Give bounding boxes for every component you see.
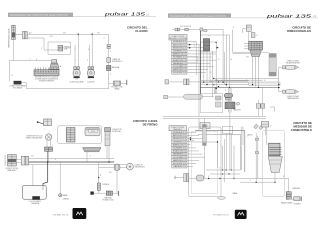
rear brake pedal switch bbox=[83, 148, 102, 152]
BR wire pair right of bundle bbox=[241, 127, 243, 146]
svg-text:CLAXON: CLAXON bbox=[87, 81, 95, 84]
wire to battery bbox=[93, 190, 119, 193]
stub wires into switch block bbox=[244, 44, 249, 49]
wire ground to battery bottom bus bbox=[21, 83, 108, 89]
svg-text:G/N: G/N bbox=[97, 33, 100, 35]
grid connector J2 bbox=[8, 155, 17, 167]
wire bundle down bbox=[229, 87, 231, 170]
svg-text:V/N: V/N bbox=[31, 155, 34, 157]
bus light 2 bbox=[29, 164, 127, 166]
svg-text:N: N bbox=[110, 51, 111, 53]
BR top connector box bbox=[261, 122, 269, 128]
BR key barrel bbox=[196, 175, 204, 181]
svg-text:GRIS/N 2.5: GRIS/N 2.5 bbox=[173, 141, 186, 143]
svg-text:B: B bbox=[233, 27, 234, 29]
ignition switch circle bbox=[126, 163, 133, 170]
wire color labels BR bbox=[192, 120, 285, 183]
svg-text:DIAGRAMA DE CIRCUITOS ELECTRIC: DIAGRAMA DE CIRCUITOS ELECTRICOS bbox=[170, 15, 226, 18]
svg-text:pulsar 135: pulsar 135 bbox=[265, 13, 312, 18]
wire gauge down bbox=[274, 173, 276, 183]
box inner bits bbox=[216, 96, 222, 100]
wire bus to battery drop bbox=[98, 162, 100, 183]
main harness connector table rows bbox=[172, 40, 187, 74]
brake lever switch box bbox=[44, 119, 52, 126]
svg-text:NEGRO/N 2.5: NEGRO/N 2.5 bbox=[173, 47, 186, 49]
tail light module bbox=[85, 128, 100, 136]
dark bus bbox=[200, 87, 280, 93]
left switch assembly strip bbox=[34, 68, 59, 76]
left boundary box bbox=[200, 94, 222, 113]
svg-text:G/N: G/N bbox=[246, 57, 249, 59]
wire from top box bbox=[243, 28, 249, 41]
svg-text:V: V bbox=[246, 80, 247, 82]
battery BT1 bbox=[107, 65, 111, 70]
BR battery branch bbox=[288, 179, 290, 192]
top chain wire bbox=[172, 29, 184, 31]
wire color labels TL bbox=[11, 32, 100, 77]
svg-text:VERDE/N 2.5: VERDE/N 2.5 bbox=[173, 132, 186, 134]
turn signal switch connector block bbox=[249, 41, 263, 50]
svg-text:BATERIA: BATERIA bbox=[112, 66, 120, 69]
svg-text:V: V bbox=[90, 155, 91, 157]
svg-text:EN CHASIS: EN CHASIS bbox=[13, 86, 23, 89]
BL fuse element bbox=[97, 183, 100, 190]
lamp front right bbox=[283, 65, 299, 69]
tail unit boundary box bbox=[58, 126, 102, 144]
svg-text:LS: LS bbox=[313, 14, 317, 18]
switch connector cap bbox=[52, 60, 57, 63]
svg-text:FRENO DELANTERO: FRENO DELANTERO bbox=[26, 137, 43, 140]
svg-text:CABLE: CABLE bbox=[247, 134, 253, 137]
wires into cable bbox=[233, 29, 270, 53]
node barrel bbox=[108, 161, 110, 163]
svg-text:ENCENDIDO: ENCENDIDO bbox=[135, 166, 146, 168]
svg-text:2: 2 bbox=[87, 60, 88, 62]
stop lamp feed wires bbox=[30, 165, 33, 191]
wires from switch down bbox=[253, 57, 259, 88]
svg-text:CABLEADO: CABLEADO bbox=[173, 128, 183, 131]
wire CN1 lower to fuse box bbox=[27, 38, 48, 50]
svg-text:TRASERA DER.: TRASERA DER. bbox=[287, 97, 300, 100]
BR outer boundary box bbox=[189, 127, 221, 197]
BR harness table header bbox=[169, 126, 186, 131]
svg-text:G/N: G/N bbox=[63, 33, 66, 35]
BR key chain wire left bbox=[175, 177, 184, 179]
svg-text:N: N bbox=[208, 176, 209, 178]
svg-text:INTERRUPTOR DEL CLAXON: INTERRUPTOR DEL CLAXON bbox=[8, 28, 11, 48]
inline connector CN3 bbox=[21, 156, 25, 165]
svg-text:LS: LS bbox=[146, 12, 150, 16]
top chain connector pair bbox=[175, 28, 177, 31]
bottom bus rows bbox=[200, 81, 280, 85]
front brake connector bbox=[45, 147, 53, 151]
wire J1 down bbox=[12, 40, 14, 61]
vertical barrel connector bbox=[105, 128, 111, 132]
svg-text:CONECTOR: CONECTOR bbox=[5, 154, 7, 166]
wire left loop bbox=[10, 61, 14, 82]
svg-text:N: N bbox=[225, 90, 226, 92]
BR cross wires bbox=[206, 170, 289, 179]
BR right gauge box bbox=[263, 130, 285, 197]
BR row wires bbox=[187, 132, 205, 166]
svg-text:V: V bbox=[250, 180, 251, 182]
front brake switch circle bbox=[46, 134, 52, 140]
connector CN2 pair bbox=[107, 44, 110, 46]
wire battery branch vertical bbox=[108, 34, 110, 88]
svg-text:PRINCIPAL: PRINCIPAL bbox=[112, 130, 121, 133]
svg-text:1: 1 bbox=[75, 60, 76, 62]
connector J1 horn switch block bbox=[12, 25, 16, 39]
ground drop bbox=[59, 162, 61, 194]
stop lamp bulb base bbox=[32, 196, 40, 200]
tail harness connector block bbox=[66, 128, 75, 143]
BR destellador box bbox=[200, 123, 210, 129]
cable bundle vertical bbox=[269, 54, 276, 77]
svg-text:N: N bbox=[36, 59, 37, 61]
vertical v3 bbox=[206, 51, 208, 85]
svg-text:DE FRENO: DE FRENO bbox=[143, 122, 159, 126]
BL battery bbox=[106, 191, 112, 195]
wire battery bottom to fuse F2 bbox=[109, 82, 127, 84]
wire color labels BL bbox=[31, 129, 112, 178]
BR nodes near table bbox=[190, 137, 191, 138]
key chain: fuse cylinder bbox=[114, 164, 120, 170]
BR routing loop dark bbox=[195, 131, 245, 172]
extra labels TL2 bbox=[41, 33, 112, 77]
stop lamp housing bbox=[23, 186, 47, 200]
node horn1 feed bbox=[78, 34, 80, 36]
barrel wires to bus bbox=[107, 146, 109, 162]
BR junction cluster bbox=[219, 169, 234, 179]
instrument cluster lower block bbox=[225, 102, 235, 109]
top chain barrel bbox=[184, 28, 189, 31]
wire lamps link bbox=[279, 67, 283, 92]
wire relay drop bbox=[215, 43, 217, 94]
instrument cluster dark block bbox=[224, 94, 232, 98]
junction cluster bbox=[213, 78, 219, 89]
TR switch assembly: top box bbox=[246, 25, 251, 31]
BR battery bbox=[286, 192, 291, 200]
wire to right corner bbox=[203, 29, 224, 82]
svg-text:MASA CHASIS: MASA CHASIS bbox=[281, 202, 293, 205]
wire mesh TR center bbox=[196, 35, 226, 117]
BR mid wire bbox=[191, 142, 218, 168]
bus light 3 bbox=[99, 166, 115, 168]
flasher unit bbox=[203, 39, 209, 51]
svg-text:GRIS/N 2.5: GRIS/N 2.5 bbox=[173, 51, 186, 53]
wire mid horizontal bbox=[200, 35, 229, 87]
BR small box2 bbox=[223, 126, 233, 134]
svg-text:10: 10 bbox=[11, 75, 13, 77]
fuel sender double wires bbox=[256, 133, 258, 182]
BR inner wires bbox=[199, 118, 242, 178]
flasher relay box outline bbox=[200, 42, 216, 52]
wire pedal switch to bus bbox=[86, 152, 88, 162]
left page header rule bbox=[73, 16, 156, 18]
wire J1 to inline connector CN1 bbox=[15, 33, 22, 35]
svg-text:VISTA POSTERIOR: VISTA POSTERIOR bbox=[39, 80, 55, 83]
nodes on lamp link bbox=[278, 84, 279, 85]
BR extra vertical line bbox=[224, 139, 226, 182]
svg-text:VERDE/N 2.5: VERDE/N 2.5 bbox=[173, 41, 186, 43]
wires down to BR bbox=[258, 88, 262, 117]
ground connector block bbox=[14, 81, 22, 84]
brake lever arm bbox=[38, 122, 44, 124]
lamp rear right bbox=[283, 90, 299, 94]
arrow in relay box bbox=[217, 47, 219, 49]
horn H2 bbox=[87, 67, 94, 78]
handlebar connector chain bbox=[165, 80, 169, 84]
svg-text:PULSAR 135 LS: PULSAR 135 LS bbox=[213, 214, 229, 217]
left footer logo bbox=[73, 208, 87, 219]
ignition switch SW1 bbox=[107, 58, 111, 62]
bus dark main bbox=[29, 161, 115, 163]
top chain box bbox=[200, 28, 203, 31]
cable bar horizontal bbox=[249, 82, 280, 85]
fuse box outline bbox=[48, 42, 70, 54]
svg-text:DIRECCIONALES: DIRECCIONALES bbox=[287, 29, 311, 33]
svg-text:TRASERA: TRASERA bbox=[31, 202, 40, 205]
BR key chain connector pair bbox=[184, 174, 186, 182]
svg-text:ROJO/N 2.5: ROJO/N 2.5 bbox=[173, 72, 186, 74]
fuel sender connector angled bbox=[254, 124, 259, 129]
turn signal switch trapezoid bbox=[250, 50, 261, 57]
left page header bar bbox=[8, 13, 73, 17]
svg-text:R/N: R/N bbox=[109, 172, 112, 174]
dark main vertical bbox=[200, 31, 202, 94]
wire top bus to battery branch bbox=[27, 33, 108, 35]
svg-text:ENCENDIDO: ENCENDIDO bbox=[112, 61, 123, 63]
ground lug dark bbox=[90, 192, 93, 195]
small connector D bbox=[251, 33, 255, 38]
svg-text:FUSIBLE 15 A: FUSIBLE 15 A bbox=[103, 199, 115, 202]
BR top double wire bbox=[163, 117, 266, 119]
svg-text:FUSIBLE: FUSIBLE bbox=[102, 184, 110, 186]
svg-text:DELANTERA DER.: DELANTERA DER. bbox=[286, 62, 301, 65]
svg-text:N: N bbox=[41, 48, 42, 50]
node horn2 feed bbox=[91, 34, 93, 36]
fuel gauge float housing bbox=[268, 157, 282, 173]
wire J2 to CN3 bbox=[16, 160, 21, 163]
terminal bar bbox=[118, 191, 120, 196]
svg-text:MANUBRIO: MANUBRIO bbox=[7, 169, 17, 172]
dark wire down to bus bbox=[47, 151, 49, 162]
svg-text:N: N bbox=[209, 36, 210, 38]
wire color labels TR bbox=[180, 25, 266, 92]
wire horn1 drop bbox=[75, 34, 78, 66]
BR fuse bbox=[289, 198, 294, 200]
svg-text:pulsar 135: pulsar 135 bbox=[103, 12, 146, 17]
L wire bbox=[270, 107, 275, 112]
BR second bus bbox=[240, 181, 274, 183]
svg-text:CLAXON: CLAXON bbox=[135, 29, 147, 33]
svg-text:TABLERO: TABLERO bbox=[233, 109, 241, 112]
svg-text:FUSIBLE: FUSIBLE bbox=[294, 203, 302, 205]
node on relay bbox=[216, 42, 217, 43]
svg-text:G/N: G/N bbox=[50, 36, 53, 38]
fuse F1 bbox=[58, 45, 63, 51]
wire box to gauge bbox=[266, 127, 267, 145]
small box right of table bbox=[187, 56, 198, 62]
svg-text:N: N bbox=[31, 32, 32, 34]
svg-text:ROJO/N 2.5: ROJO/N 2.5 bbox=[173, 163, 186, 165]
svg-text:CABLEADO PRINCIPAL: CABLEADO PRINCIPAL bbox=[169, 37, 188, 40]
wire circle to connector bbox=[47, 140, 51, 147]
svg-text:DIAGRAMA DE CIRCUITOS ELECTRIC: DIAGRAMA DE CIRCUITOS ELECTRICOS bbox=[10, 14, 68, 17]
svg-text:CHASIS: CHASIS bbox=[63, 198, 70, 201]
BR inner box bbox=[192, 131, 218, 193]
table row wires bbox=[187, 42, 216, 73]
fuel gauge unit bbox=[269, 143, 282, 156]
connector ticks on sender wires bbox=[255, 138, 258, 140]
small connector on wire bbox=[204, 30, 207, 32]
right footer logo bbox=[235, 210, 247, 219]
horn H1 bbox=[73, 67, 80, 78]
svg-text:PULSAR 135 LS: PULSAR 135 LS bbox=[53, 214, 69, 217]
wire horn2 drop bbox=[90, 34, 93, 66]
wire inside fuse box bbox=[48, 48, 70, 50]
indicator bulb bbox=[237, 102, 240, 105]
BR cable bundle 1 bbox=[203, 125, 207, 146]
wire rows right bbox=[209, 79, 278, 82]
extra bus junction dots bbox=[203, 82, 259, 89]
TR bottom-right connector pair bbox=[256, 104, 260, 108]
inline connector CN1 bbox=[22, 31, 24, 39]
ignition chain2 bbox=[164, 95, 168, 98]
BR harness table rows bbox=[172, 131, 187, 168]
switch body trapezoid bbox=[50, 63, 60, 69]
top chain wire2 bbox=[189, 29, 200, 31]
main harness connector table header bbox=[169, 35, 187, 40]
wire to switch trapezoid bbox=[13, 60, 51, 62]
bus light 1 bbox=[29, 158, 115, 160]
svg-text:CLAXON (DOBLE): CLAXON (DOBLE) bbox=[69, 81, 84, 84]
svg-text:NEGRO/N 2.5: NEGRO/N 2.5 bbox=[173, 138, 186, 140]
terminal bar bbox=[126, 80, 128, 85]
vertical v2 bbox=[203, 51, 205, 82]
node front brake bbox=[47, 161, 49, 163]
fuse F2 bbox=[114, 81, 121, 85]
svg-text:V: V bbox=[194, 43, 195, 45]
right page header rule bbox=[231, 17, 318, 19]
svg-text:N: N bbox=[55, 159, 56, 161]
arrow marks bbox=[189, 44, 191, 46]
right page header bar bbox=[168, 13, 231, 17]
ground bump on box bbox=[218, 196, 226, 199]
svg-text:COMBUSTIBLE: COMBUSTIBLE bbox=[291, 128, 312, 132]
svg-text:BATERIA: BATERIA bbox=[293, 187, 301, 190]
